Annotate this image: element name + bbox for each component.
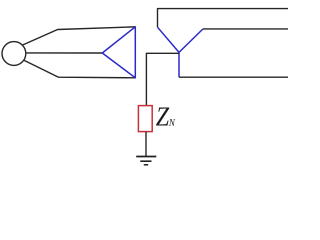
wire bottom right bbox=[179, 76, 288, 78]
wire node to load bbox=[146, 53, 179, 105]
antenna triangle A1 bbox=[102, 27, 135, 78]
svg-text:Z: Z bbox=[156, 101, 170, 132]
wire blue right diagonal bbox=[179, 29, 203, 53]
wire second right bbox=[203, 28, 288, 30]
wire middle feed bbox=[26, 52, 102, 54]
source circle G1 bbox=[2, 42, 26, 66]
wire load to ground bbox=[145, 132, 147, 156]
svg-text:N: N bbox=[168, 118, 176, 130]
wire top right bbox=[158, 9, 289, 28]
wire blue left diagonal bbox=[158, 27, 180, 52]
wire top feed bbox=[23, 27, 135, 45]
resistor ZN bbox=[138, 106, 152, 132]
ground bbox=[136, 157, 156, 165]
wire bottom feed bbox=[24, 60, 135, 78]
wire blue stem bbox=[178, 52, 180, 77]
